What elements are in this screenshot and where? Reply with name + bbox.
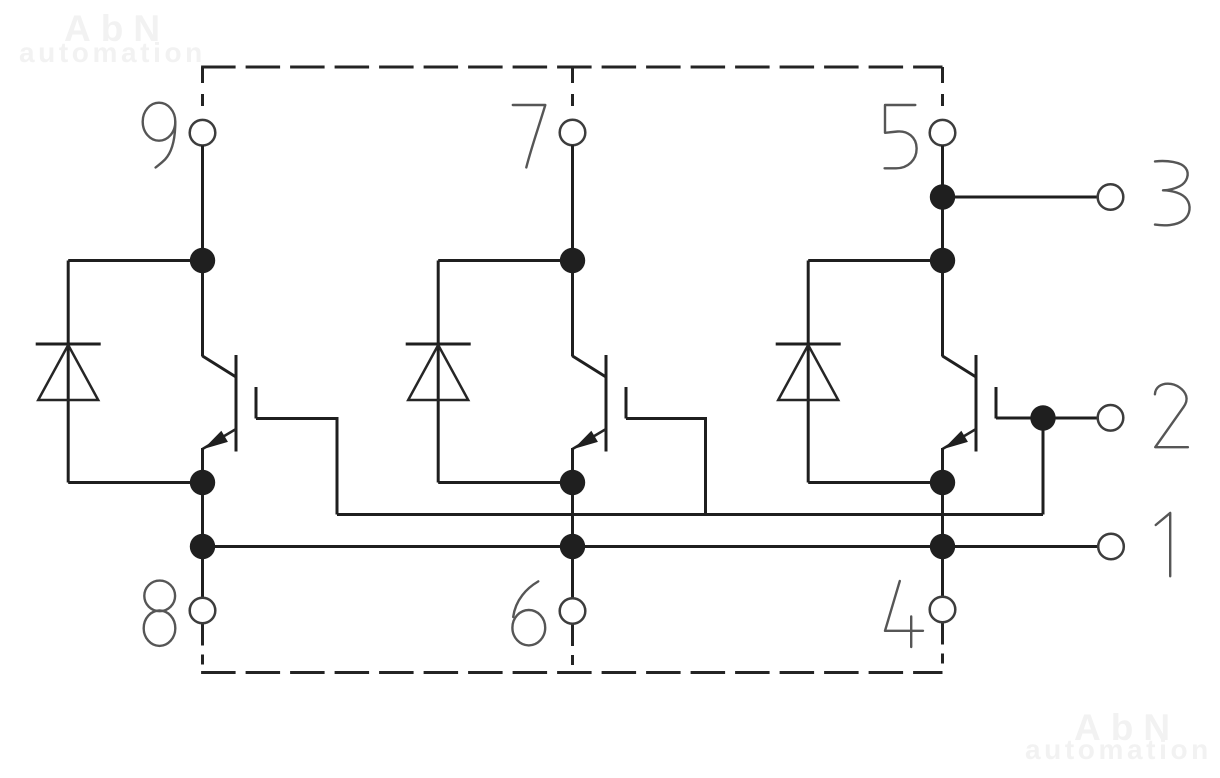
node emitter bus junction 1: [190, 534, 215, 559]
diode D1: [36, 261, 101, 483]
wire Q3 emitter to node: [941, 448, 944, 483]
wire collector node to Q2: [571, 261, 574, 357]
wire emitter node to bus node (cell 1): [201, 483, 204, 547]
terminal 5: [930, 120, 956, 146]
node collector junction Q3: [930, 248, 955, 273]
node emitter junction Q1: [190, 470, 215, 495]
wire diode D2 bottom branch: [438, 481, 572, 484]
emitter bus wire: [203, 545, 1099, 548]
wire bus node to terminal 8: [201, 547, 204, 598]
wire gate node to terminal 2: [1043, 417, 1098, 420]
node emitter bus junction 2: [560, 534, 585, 559]
wire Q1 emitter to node: [201, 448, 204, 483]
pin label 7: [513, 105, 546, 167]
module outline bottom edge (dashed): [201, 671, 942, 674]
terminal 8: [190, 598, 216, 624]
wire collector node to Q1: [201, 261, 204, 357]
transistor Q3: [943, 355, 997, 452]
diode D3: [776, 261, 841, 483]
node collector tap for terminal 3: [930, 184, 955, 209]
wire Q2 emitter to node: [571, 448, 574, 483]
terminal 9: [190, 120, 216, 146]
wire pin 5 through tap node to collector node: [941, 146, 944, 261]
module outline stub above pin 5: [941, 67, 944, 120]
wire Q3 gate lead: [996, 417, 1043, 420]
wire bus node to terminal 4: [941, 547, 944, 597]
watermark bottom-right "AbN automation": [1025, 707, 1212, 765]
node collector junction Q1: [190, 248, 215, 273]
terminal 7: [560, 120, 586, 146]
wire diode D1 top branch: [68, 259, 202, 262]
transistor Q1: [203, 355, 257, 452]
wire tap node to terminal 3: [943, 196, 1098, 199]
pin label 5: [885, 105, 917, 168]
terminal 3: [1098, 184, 1124, 210]
module outline stub below pin 4: [941, 623, 944, 673]
terminal 4: [930, 597, 956, 623]
wire emitter node to bus node (cell 3): [941, 483, 944, 547]
wire Q2 gate lead: [626, 419, 706, 515]
module outline stub above pin 9: [201, 67, 204, 120]
wire pin 9 to collector node: [201, 146, 204, 261]
pin label 6: [512, 581, 545, 645]
node emitter junction Q3: [930, 470, 955, 495]
pin label 8: [144, 581, 176, 646]
pin label 1: [1156, 513, 1171, 576]
module outline top edge (dashed): [201, 66, 942, 69]
module outline stub below pin 6: [571, 624, 574, 673]
watermark top-left "AbN automation": [19, 8, 206, 68]
wire bus node to terminal 6: [571, 547, 574, 599]
wire diode D3 top branch: [808, 259, 942, 262]
node emitter bus junction 3: [930, 534, 955, 559]
diode D2: [406, 261, 471, 483]
pin label 2: [1155, 384, 1188, 448]
terminal 6: [560, 598, 586, 624]
node emitter junction Q2: [560, 470, 585, 495]
wire Q1 gate lead: [256, 419, 337, 515]
wire emitter node to bus node (cell 2): [571, 483, 574, 547]
wire gate node riser to gate bus: [1042, 418, 1045, 515]
svg-text:automation: automation: [19, 37, 206, 68]
wire diode D1 bottom branch: [68, 481, 202, 484]
terminal 1: [1098, 534, 1124, 560]
node collector junction Q2: [560, 248, 585, 273]
gate bus wire: [337, 513, 1043, 516]
svg-text:automation: automation: [1025, 734, 1212, 765]
wire collector node to Q3: [941, 261, 944, 357]
pin label 3: [1155, 161, 1190, 225]
node gate junction (terminal 2 tap): [1030, 405, 1055, 430]
module outline stub below pin 8: [201, 624, 204, 673]
pin label 9: [143, 103, 176, 168]
pin label 4: [885, 581, 923, 647]
module outline stub above pin 7: [571, 67, 574, 120]
wire diode D2 top branch: [438, 259, 572, 262]
terminal 2: [1098, 405, 1124, 431]
wire diode D3 bottom branch: [808, 481, 942, 484]
wire pin 7 to collector node: [571, 145, 574, 260]
transistor Q2: [573, 355, 627, 452]
